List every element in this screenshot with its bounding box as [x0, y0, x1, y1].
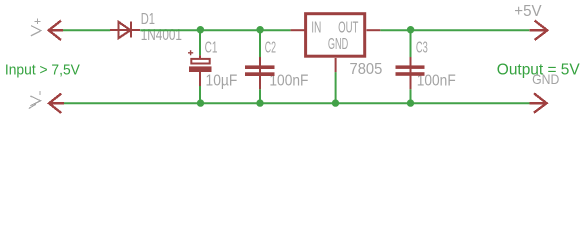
svg-text:100nF: 100nF [269, 72, 308, 89]
svg-text:C2: C2 [265, 39, 276, 56]
svg-text:IN: IN [311, 20, 321, 37]
svg-text:7805: 7805 [350, 61, 383, 78]
svg-text:OUT: OUT [338, 20, 358, 37]
svg-text:C1: C1 [205, 39, 218, 56]
svg-text:10µF: 10µF [206, 72, 238, 89]
svg-text:Input > 7,5V: Input > 7,5V [5, 63, 80, 79]
svg-text:Output = 5V: Output = 5V [497, 61, 580, 78]
svg-text:D1: D1 [141, 11, 155, 28]
svg-text:C3: C3 [416, 39, 428, 56]
svg-text:+5V: +5V [514, 3, 542, 20]
svg-text:GND: GND [328, 36, 348, 53]
